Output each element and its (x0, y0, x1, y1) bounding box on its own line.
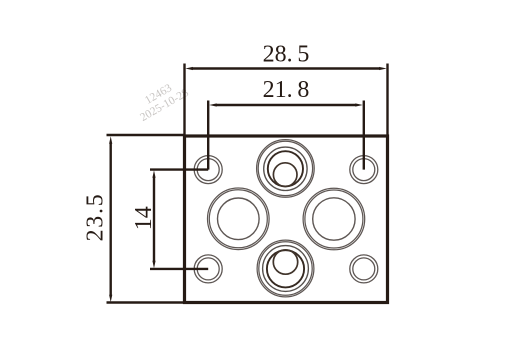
dimension group: dark lines (107, 64, 388, 303)
port circle right (T) (303, 188, 365, 250)
dimension texts (83, 41, 310, 241)
extension line left for 28.5 (183, 64, 185, 137)
dimension line 23.5 (109, 143, 111, 296)
arrow 14 top (152, 170, 155, 178)
svg-text:14: 14 (131, 206, 157, 230)
arrow 23.5 top (109, 136, 112, 144)
extension line top for 23.5 (107, 134, 185, 136)
arrow 14 bottom (152, 261, 155, 269)
dimension line 28.5 (192, 67, 380, 69)
plate outline rectangle (185, 136, 388, 303)
arrow 23.5 bottom (109, 295, 112, 303)
extension line top for 14 (150, 168, 208, 170)
extension line bottom for 14 (150, 268, 208, 270)
extension line right for 21.8 (363, 101, 365, 170)
arrow 21.8 right (355, 103, 363, 106)
svg-text:28. 5: 28. 5 (263, 41, 310, 67)
watermark text 12463 / 2025-10-28 (138, 82, 191, 124)
extension line left for 21.8 (207, 101, 209, 170)
arrow 28.5 right (379, 67, 387, 70)
corner hole bottom-right (350, 255, 378, 283)
port assembly bottom (B) (257, 240, 314, 297)
arrowheads (109, 67, 387, 302)
svg-text:21. 8: 21. 8 (263, 77, 310, 103)
svg-text:23.5: 23.5 (83, 193, 109, 242)
corner hole top-right (350, 156, 378, 184)
arrow 28.5 left (185, 67, 193, 70)
port circle left (P) (208, 188, 270, 250)
corner hole bottom-left (194, 255, 222, 283)
dimension line 14 (153, 177, 155, 262)
extension line right for 28.5 (386, 64, 388, 137)
extension line bottom for 23.5 (107, 301, 185, 303)
dimension line 21.8 (216, 104, 356, 106)
port assembly top (A) (257, 140, 315, 198)
arrow 21.8 left (209, 103, 217, 106)
corner hole top-left (194, 156, 222, 184)
